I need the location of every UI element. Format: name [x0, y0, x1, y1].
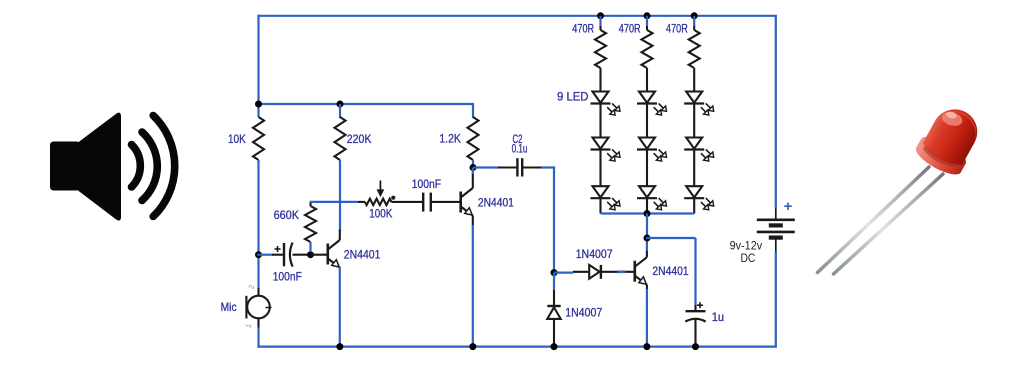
wire Q2 emitter to ground rail: [472, 225, 474, 347]
wire Q2 collector stub: [472, 168, 474, 175]
wire Q1 emitter to ground rail: [339, 267, 341, 347]
wire C1 to Q1 base node: [293, 254, 311, 256]
speaker icon: [50, 113, 175, 221]
svg-text:DC: DC: [740, 251, 755, 265]
svg-text:0.1u: 0.1u: [512, 142, 528, 156]
transistor Q1 2N4401: [326, 244, 329, 265]
capacitor C1 100nF polarized: [272, 254, 284, 256]
LED D4 column 1 row 2: [593, 138, 609, 149]
wire C3 to Q2 base: [431, 201, 461, 203]
LED D8 column 2 row 3: [639, 186, 655, 197]
junction node LED column 3 top: [691, 12, 698, 19]
svg-text:470R: 470R: [572, 22, 594, 36]
svg-text:470R: 470R: [619, 22, 641, 36]
resistor R4 660K: [305, 206, 316, 242]
junction ground Q1 emitter: [336, 343, 343, 350]
capacitor C4 1u polarized: [694, 305, 696, 311]
wire LED column 1 segment 1: [599, 104, 601, 138]
wire mic bottom to ground rail: [257, 328, 259, 348]
svg-text:+: +: [784, 198, 793, 215]
resistor R3 1.2K: [468, 117, 479, 160]
wire right rail lower: [775, 252, 777, 348]
junction node Q1 base: [307, 251, 314, 258]
wire C1 left lead blue: [257, 254, 273, 256]
resistor R6 470R: [646, 26, 648, 30]
wire LED column 3 top stub: [693, 16, 695, 26]
capacitor C3 100nF coupling: [422, 193, 424, 212]
svg-text:Mic: Mic: [221, 300, 237, 314]
junction node LED column 2 top: [644, 12, 651, 19]
junction node Q3 collector: [644, 235, 651, 242]
svg-text:10K: 10K: [228, 132, 246, 146]
junction node 220K top: [337, 101, 344, 108]
capacitor C2 0.1u: [498, 166, 517, 168]
diode D2 1N4007 shunt: [553, 273, 555, 290]
wire Q3 collector stub: [646, 238, 648, 251]
svg-text:100K: 100K: [369, 206, 392, 220]
svg-text:2N4401: 2N4401: [652, 264, 688, 278]
junction node LED column 1 top: [597, 12, 604, 19]
svg-text:1: 1: [244, 323, 254, 329]
junction node Q2 collector / C2: [470, 164, 477, 171]
potentiometer RV1 100K: [365, 199, 391, 205]
svg-text:660K: 660K: [274, 208, 299, 222]
wire 220K to Q1 collector: [339, 160, 341, 231]
svg-text:220K: 220K: [347, 132, 372, 146]
junction ground Q2 emitter: [469, 343, 476, 350]
wire right rail upper: [775, 15, 777, 208]
wire Q3 collector node to C4 column: [646, 237, 696, 239]
svg-text:470R: 470R: [666, 22, 688, 36]
svg-text:2: 2: [247, 284, 257, 290]
wire 220K top stub: [339, 104, 341, 118]
wire C2 right to detector node: [542, 166, 556, 168]
LED D11 column 3 row 3: [686, 186, 702, 197]
wire detector node to D1: [554, 272, 573, 274]
wire Q3 emitter to ground rail: [646, 289, 648, 347]
svg-text:2N4401: 2N4401: [344, 247, 381, 261]
svg-text:1N4007: 1N4007: [565, 305, 602, 319]
wire LED bus to Q3 collector node: [646, 214, 648, 239]
wire LED column 1 top stub: [599, 16, 601, 26]
LED D7 column 2 row 2: [639, 138, 655, 149]
LED D6 column 2 row 1: [639, 92, 655, 103]
wire pot left lead: [358, 201, 365, 203]
wire node to C2: [473, 166, 498, 168]
junction node LED bus: [644, 210, 651, 217]
svg-text:100nF: 100nF: [273, 269, 302, 283]
wire pot to C3: [391, 201, 423, 203]
wire top power rail: [257, 15, 775, 17]
wire LED column 3 segment 2: [693, 150, 695, 187]
LED D3 column 1 row 1: [593, 92, 609, 103]
LED D5 column 1 row 3: [593, 186, 609, 197]
wire LED column 2 segment 2: [646, 150, 648, 187]
wire left rail upper segment: [257, 15, 259, 117]
wire 660K top lead: [309, 202, 311, 206]
svg-text:9 LED: 9 LED: [557, 89, 589, 103]
wire left rail 10K to mic-cap node: [257, 160, 259, 288]
red LED photo: [818, 100, 988, 274]
resistor R7 470R: [693, 26, 695, 30]
svg-text:1u: 1u: [712, 310, 724, 324]
wire LED column 2 segment 1: [646, 104, 648, 138]
wire LED column 3 bottom lead: [693, 199, 695, 214]
wire Q1 base lead: [311, 254, 328, 256]
wire 660K bottom lead: [309, 242, 311, 251]
svg-text:1N4007: 1N4007: [576, 247, 613, 261]
wire 1.2K top stub: [472, 103, 474, 118]
junction node left-rail/base-rail: [255, 101, 262, 108]
wire LED column 1 segment 2: [599, 150, 601, 187]
LED D9 column 3 row 1: [686, 92, 702, 103]
wire 1.2K bottom to node: [472, 160, 474, 168]
wire LED array bottom bus: [601, 212, 695, 214]
resistor R1 10K: [253, 117, 264, 160]
svg-text:2N4401: 2N4401: [478, 195, 514, 209]
microphone MIC1: [257, 288, 259, 296]
resistor R5 470R: [599, 26, 601, 30]
svg-text:1.2K: 1.2K: [439, 131, 460, 145]
junction node C1 left / mic rail: [255, 251, 262, 258]
wire LED column 1 bottom lead: [599, 199, 601, 214]
battery BT1 9v-12v: [775, 208, 777, 220]
wire LED column 3 segment 1: [693, 104, 695, 138]
wire base rail y104 from left rail to 1.2K: [259, 103, 474, 105]
junction ground Q3 emitter: [643, 343, 650, 350]
wire 660K feedback row: [310, 201, 359, 203]
junction node detector: [551, 269, 558, 276]
wire LED column 2 bottom lead: [646, 199, 648, 214]
transistor Q3 2N4401: [633, 261, 636, 282]
wire ground bottom rail: [257, 346, 775, 348]
wire joint blue segment D1 to Q3: [618, 270, 626, 273]
svg-text:100nF: 100nF: [412, 177, 441, 191]
junction ground C4: [692, 343, 699, 350]
LED D10 column 3 row 2: [686, 138, 702, 149]
diode D1 1N4007 series: [573, 271, 589, 273]
transistor Q2 2N4401: [459, 192, 462, 213]
resistor R2 220K: [335, 117, 346, 160]
wire LED column 2 top stub: [646, 16, 648, 26]
junction ground D2: [551, 343, 558, 350]
